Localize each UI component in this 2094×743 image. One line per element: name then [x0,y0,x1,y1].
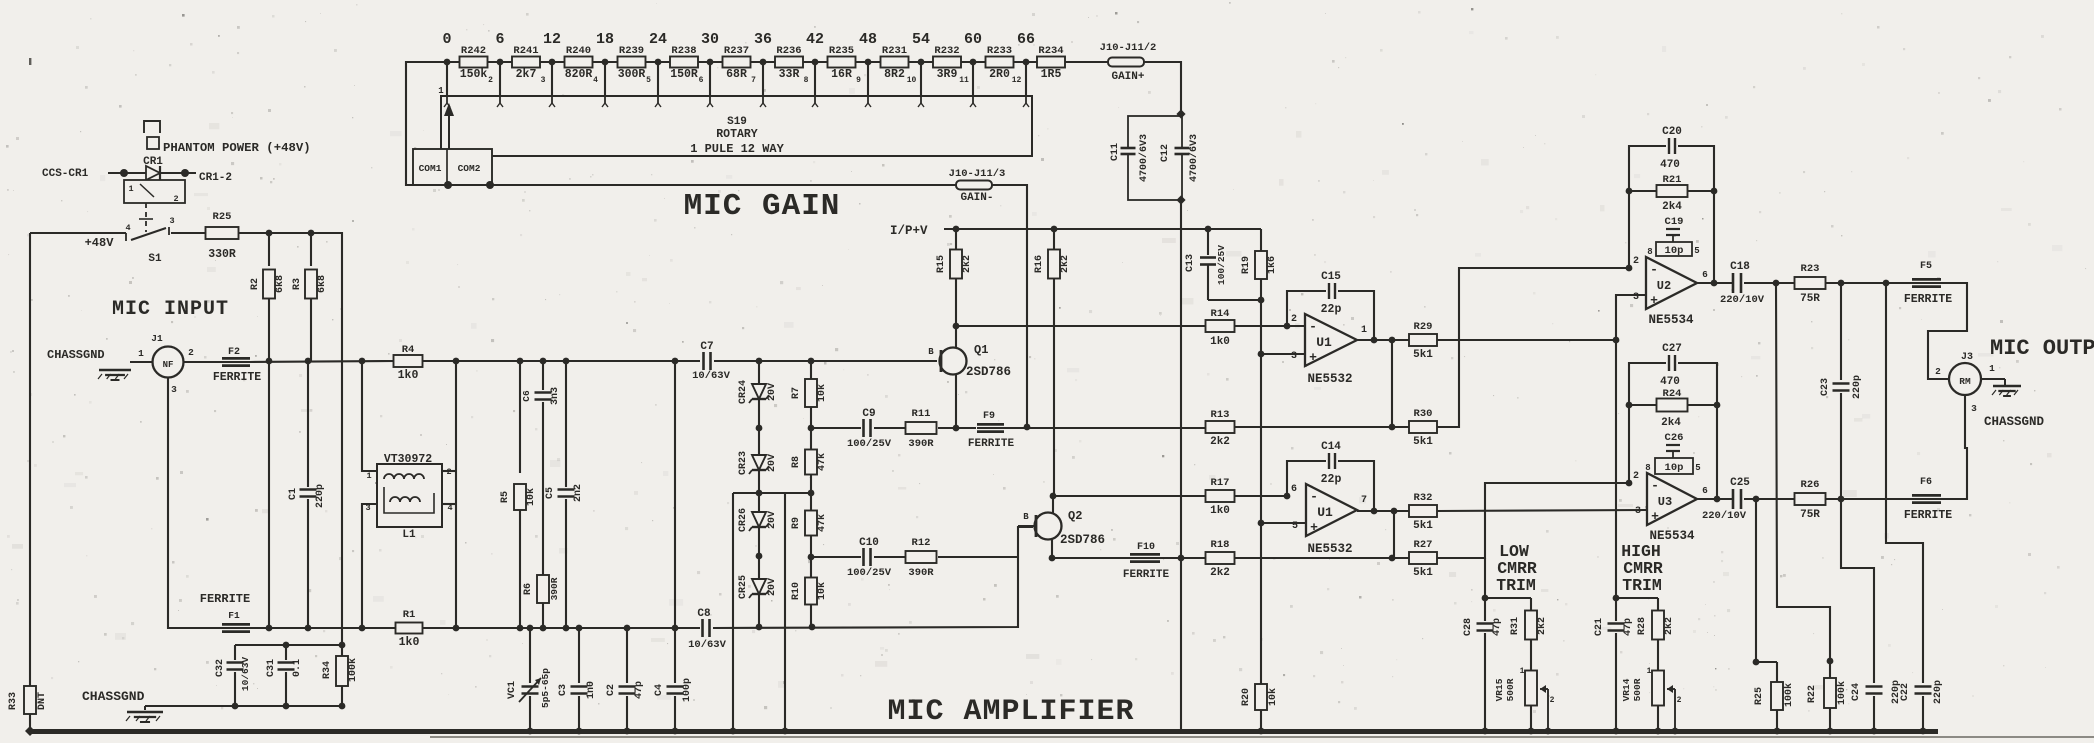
wire - R25 to R2 R3 [239,232,340,234]
svg-text:3: 3 [1971,403,1977,414]
svg-text:18: 18 [596,31,614,48]
svg-text:2R0: 2R0 [989,68,1010,81]
svg-text:C23: C23 [1820,378,1831,396]
node clamp rail 785 [782,728,789,735]
svg-text:10/63V: 10/63V [688,639,727,651]
wire - phantom down to C32 box [340,233,342,645]
svg-text:NE5532: NE5532 [1307,542,1352,556]
svg-text:FERRITE: FERRITE [1904,509,1952,522]
svg-text:R8: R8 [791,456,802,468]
svg-text:1: 1 [128,184,133,194]
svg-text:8: 8 [1645,463,1650,473]
wire - bias column [1260,300,1262,684]
symbol small square [147,137,159,149]
capacitor C6 3n3 [542,361,544,390]
svg-text:2: 2 [173,194,178,204]
svg-text:3: 3 [1633,292,1639,303]
svg-text:R6: R6 [523,583,534,595]
resistor R28 [1657,598,1659,611]
svg-text:R239: R239 [619,45,644,57]
resistor R32 [1409,505,1437,517]
node C13 top [1205,226,1212,233]
node C2 rail [624,728,631,735]
node R8-R9 [808,490,815,497]
op-amp U1A [1305,314,1357,366]
wire - R14 line [956,325,1205,327]
wire - tap 24 drop to switch S19 [657,62,659,96]
wire - VT pin2 column [455,361,457,628]
svg-text:16R: 16R [831,68,852,81]
capacitor C20 [1660,126,1682,171]
wire - Q1 collector [955,326,957,348]
svg-text:R33: R33 [8,692,19,710]
svg-text:6k8: 6k8 [316,275,328,293]
resistor R232 [933,57,961,68]
resistor R242 [460,57,488,68]
svg-text:220/10V: 220/10V [1720,294,1765,306]
svg-text:R25: R25 [1754,687,1765,705]
svg-text:R238: R238 [671,45,696,57]
svg-text:1k0: 1k0 [1210,336,1230,348]
node hot at VT pin2 column [453,358,460,365]
svg-text:C21: C21 [1594,618,1605,636]
diode CR1 [146,166,160,180]
wire - U2 output [1697,282,1732,284]
resistor R1 [396,623,423,634]
svg-text:R236: R236 [776,45,801,57]
wire - out2 drop [1756,499,1777,662]
svg-text:J10-J11/2: J10-J11/2 [1100,42,1157,54]
resistor R29 [1409,334,1437,346]
svg-text:390R: 390R [908,438,934,450]
wire - hot line C7 to Q1 base [714,360,937,362]
svg-text:60: 60 [964,31,982,48]
resistor R238 [670,57,698,68]
wire - C13 R19 bottom [1208,299,1261,301]
wire - clamp ground drop 785 [784,493,786,731]
node cold at VC1 [527,625,534,632]
svg-text:NE5534: NE5534 [1649,529,1695,543]
switch S19 contact 2 [499,96,501,103]
svg-text:VR14: VR14 [1621,678,1632,701]
node C18 R23 [1773,280,1780,287]
wire - Q1 emitter stub [955,374,957,428]
svg-text:R2: R2 [250,278,261,290]
wire - R chain column [810,361,812,627]
svg-text:R12: R12 [912,537,931,549]
capacitor C23 [1840,283,1842,380]
resistor R237 [723,57,751,68]
svg-text:J3: J3 [1961,352,1973,363]
node gain caps at Q2 emitter line [1178,555,1185,562]
svg-text:R234: R234 [1038,45,1063,57]
wire - decouple box top [235,644,342,646]
node cold at R2 column [268,627,270,629]
resistor R24 [1629,404,1657,406]
node R2 top [266,230,273,237]
trimpot VR14 [1652,671,1664,706]
svg-text:R18: R18 [1211,539,1230,551]
svg-text:ROTARY: ROTARY [716,128,758,141]
svg-text:24: 24 [649,31,667,48]
wire - R26 to F6 [1826,498,1912,500]
node R24 left [1626,402,1633,409]
svg-text:2: 2 [1677,696,1682,705]
wire - base2 line [811,556,861,558]
wire - decouple box bottom [145,705,342,707]
svg-text:150R: 150R [670,68,698,81]
node CR1 anode [120,169,128,177]
resistor R31 [1530,598,1532,611]
zener CR25 [752,579,766,594]
node out2 junction [1391,508,1398,515]
capacitor C22 [1920,686,1926,695]
wire - out2 down to R27 [1393,511,1395,558]
svg-text:3n3: 3n3 [550,387,561,405]
node Q1 collector [953,323,960,330]
svg-text:2k2: 2k2 [1210,436,1230,448]
svg-text:5: 5 [646,76,651,85]
capacitor C11 [1125,147,1131,155]
svg-text:5: 5 [1694,246,1699,256]
resistor R16 [1053,229,1055,249]
svg-text:2k2: 2k2 [961,255,973,273]
node R2 bottom [266,358,273,365]
resistor R20 [1255,684,1267,710]
wire - R28 to VR14 [1657,640,1659,671]
svg-text:C18: C18 [1730,261,1750,273]
node tap 30 [707,59,714,66]
capacitor C4 [674,628,676,683]
capacitor C5 [565,361,567,487]
node R21 left [1626,188,1633,195]
node R9-R10 [808,554,815,561]
switch S19 box [441,96,1032,156]
capacitor C14 [1321,441,1342,486]
resistor R26 [1795,493,1826,505]
svg-text:NE5534: NE5534 [1648,313,1694,327]
svg-text:COM1: COM1 [419,163,442,174]
node tap 36 [760,59,767,66]
svg-text:48: 48 [859,31,877,48]
svg-text:-: - [1310,489,1318,504]
node R34 bottom [339,703,346,710]
node tap 24 [655,59,662,66]
wire - R32 to U3 pin3 [1437,510,1647,511]
svg-text:+: + [1310,520,1318,535]
capacitor C27 loop [1629,363,1666,405]
svg-text:MIC OUTPUT: MIC OUTPUT [1990,336,2094,361]
ferrite F1 [222,623,250,633]
svg-text:10: 10 [907,76,917,85]
op-amp U2 [1646,257,1697,309]
svg-text:R237: R237 [724,45,749,57]
wire - clamp ground drop 733 [732,493,734,731]
svg-text:C3: C3 [558,684,569,696]
svg-text:R16: R16 [1034,255,1045,273]
wire - F6 to J3 pin3 [1941,396,1967,499]
trimpot VR15 wiper [1540,688,1548,690]
svg-text:47p: 47p [1492,618,1503,636]
svg-text:CHASSGND: CHASSGND [47,348,105,362]
wire - hot line F2 to R4 [250,361,395,362]
svg-text:36: 36 [754,31,772,48]
svg-text:R22: R22 [1807,685,1818,703]
svg-text:C10: C10 [859,537,879,549]
svg-text:33R: 33R [779,68,800,81]
resistor R235 [828,57,856,68]
svg-text:54: 54 [912,31,930,48]
wire - high trim feed [1615,340,1617,598]
node C15 at output [1371,337,1378,344]
wire - GAIN- down to Q1 emitter line [992,185,1027,427]
wire - U1B pin5 stub [1261,522,1306,524]
transformer winding 1-2 [384,474,424,479]
svg-text:F1: F1 [228,610,240,621]
svg-text:10k: 10k [1267,688,1279,706]
node R7-R8 [808,425,815,432]
switch S19 contact 3 [551,96,553,103]
svg-text:10/63V: 10/63V [692,370,731,382]
ferrite F9 [977,423,1004,433]
switch S1 blade [125,233,127,241]
svg-text:6: 6 [699,76,704,85]
capacitor C18 [1732,280,1742,286]
capacitor C10 [863,554,872,560]
svg-text:C8: C8 [697,608,711,620]
node out1 junction [1389,337,1396,344]
switch S19 contact 4 [604,96,606,103]
node R16 top [1051,226,1058,233]
wire - Q2 emitter stub [1051,539,1053,558]
capacitor C8 [702,625,711,631]
svg-text:R14: R14 [1211,308,1230,320]
svg-text:R231: R231 [882,45,907,57]
node tap 66 [1023,59,1030,66]
node out2 to R27 [1389,555,1396,562]
wire - out1 drop [1776,283,1830,661]
svg-text:C20: C20 [1662,126,1682,138]
svg-text:FERRITE: FERRITE [1904,293,1952,306]
wire - tap 30 drop to switch S19 [709,62,711,96]
svg-text:C28: C28 [1463,618,1474,636]
switch S19 contact 1 [446,96,448,103]
svg-text:R233: R233 [987,45,1012,57]
resistor R240 [565,57,593,68]
wire - tap 12 drop to switch S19 [551,62,553,96]
wire - R234 to J10-J11/2 [1065,61,1108,63]
svg-text:4: 4 [125,223,130,233]
svg-text:5k1: 5k1 [1413,567,1433,579]
switch S19 contact 5 [657,96,659,103]
svg-text:220p: 220p [315,484,326,508]
svg-text:6: 6 [1702,269,1708,280]
node tap 12 [549,59,556,66]
connector J10-J11/2 [1108,58,1144,67]
svg-text:47p: 47p [1623,618,1634,636]
resistor R10 [805,578,817,605]
ferrite F6 [1912,494,1941,504]
svg-text:7: 7 [751,76,756,85]
svg-text:1: 1 [138,348,144,359]
svg-text:TRIM: TRIM [1496,576,1536,595]
svg-text:R27: R27 [1414,539,1433,551]
svg-text:+48V: +48V [85,236,115,250]
svg-text:22p: 22p [1321,473,1342,486]
wire - tap 66 drop to switch S19 [1025,62,1027,96]
wire - high trim split [1616,597,1658,599]
svg-text:1n0: 1n0 [586,681,597,699]
svg-text:-: - [1309,319,1317,334]
node C14 at output [1371,508,1378,515]
node R3 bottom [305,358,312,365]
node VR15 rail [1528,728,1535,735]
svg-text:CR26: CR26 [738,508,749,532]
wire - F5 tap to C22 drop [1886,283,1923,683]
svg-text:2: 2 [1633,471,1639,482]
svg-text:CR23: CR23 [738,451,749,475]
svg-text:220p: 220p [1852,375,1863,399]
svg-text:R19: R19 [1241,256,1252,274]
node R22 top [1827,658,1834,665]
switch S19 contact 8 [814,96,816,103]
svg-text:NE5532: NE5532 [1307,372,1352,386]
svg-text:8: 8 [1647,247,1652,257]
svg-text:-: - [1651,478,1659,493]
wire - J1 pin3 down [168,378,222,628]
zener CR24 [752,384,766,399]
svg-text:42: 42 [806,31,824,48]
svg-text:500R: 500R [1505,678,1516,701]
svg-text:R10: R10 [791,582,802,600]
wire - diode chain column [758,361,760,627]
node C24 rail [1871,728,1878,735]
svg-text:820R: 820R [565,68,593,81]
svg-text:8R2: 8R2 [884,68,905,81]
wire - tap 60 drop to switch S19 [972,62,974,96]
svg-text:1: 1 [1520,667,1525,676]
svg-text:R3: R3 [292,278,303,290]
svg-text:MIC INPUT: MIC INPUT [112,298,229,321]
svg-text:68R: 68R [726,68,747,81]
wire - collector2 line [1053,495,1205,497]
node Q2 collector [1050,493,1057,500]
svg-text:1: 1 [1361,325,1367,336]
svg-text:C27: C27 [1662,343,1682,355]
svg-text:2n2: 2n2 [573,484,584,502]
node clamp rail 733 [730,728,737,735]
svg-text:C11: C11 [1110,143,1121,161]
svg-text:VC1: VC1 [507,681,518,699]
svg-text:CCS-CR1: CCS-CR1 [42,168,89,180]
svg-text:MIC GAIN: MIC GAIN [684,189,841,224]
svg-text:J1: J1 [151,333,163,344]
wire - R27 to U3 pin2 [1437,483,1628,558]
svg-text:C13: C13 [1185,254,1196,272]
wire - U3 output [1697,498,1732,500]
svg-text:390R: 390R [908,567,934,579]
svg-text:6: 6 [1291,484,1297,495]
wire - J1 pin1 stub [130,361,152,363]
wire - R29 to U2 pin3 [1437,339,1616,341]
svg-text:R24: R24 [1663,388,1682,400]
capacitor C24 [1871,686,1877,695]
wire - continuation to ground rail [1180,558,1182,731]
resistor R3 [310,233,312,266]
svg-text:3R9: 3R9 [937,68,958,81]
node R2 column cold [266,625,273,632]
svg-text:C14: C14 [1321,441,1341,453]
node VR15 wiper rail [1545,728,1552,735]
capacitor C1 [307,361,309,487]
svg-text:C22: C22 [1900,683,1911,701]
wire - U1A output [1357,339,1410,341]
node U1A pin2 [1284,323,1291,330]
node U2 pin2 [1626,265,1633,272]
node R34 top [339,642,346,649]
svg-text:F10: F10 [1137,542,1155,553]
svg-text:R28: R28 [1637,617,1648,635]
node tap 48 [865,59,872,66]
svg-text:C12: C12 [1160,144,1171,162]
node C32 bottom [232,703,239,710]
capacitor C20 loop [1629,146,1666,191]
node C21 rail [1613,728,1620,735]
transformer VT30972 box [377,464,442,527]
svg-text:+: + [1650,293,1658,308]
node hot at VT pin1 column [359,358,366,365]
node VC1 rail [527,728,534,735]
svg-text:10k: 10k [525,488,537,506]
node R15 top [953,226,960,233]
svg-text:4700/6V3: 4700/6V3 [1138,134,1150,182]
svg-text:2: 2 [1291,314,1297,325]
node cold at C5 [563,625,570,632]
zener CR23 [752,455,766,470]
wire - emitter1 line [811,427,861,429]
svg-text:1: 1 [1989,363,1995,374]
node out1 to R30 [1389,424,1396,431]
svg-text:30: 30 [701,31,719,48]
wire - left supply edge [29,233,31,686]
svg-text:C19: C19 [1665,216,1684,228]
wire - cold line F1 to R1 [250,627,396,629]
svg-text:75R: 75R [1800,509,1820,521]
wire - tap 54 drop to switch S19 [920,62,922,96]
resistor R6 [537,575,549,603]
node U2 out C20 [1711,280,1718,287]
wire - U1A pin3 stub [1261,353,1305,355]
svg-text:R241: R241 [513,45,538,57]
svg-text:5: 5 [1695,463,1700,473]
resistor R27 [1409,552,1437,564]
svg-text:2k2: 2k2 [1536,617,1548,635]
wire - C18 to R23 [1744,282,1795,284]
svg-text:2k4: 2k4 [1662,201,1682,213]
switch wiper arrow [448,112,450,149]
node VR14 rail [1655,728,1662,735]
svg-text:VR15: VR15 [1494,678,1505,701]
wire - R2 column to cold line [268,361,270,628]
node diode mid [756,490,763,497]
resistor R13 [1206,421,1235,433]
wire - R31 to VR15 [1530,640,1532,671]
node GAIN- at emitter line [1024,424,1031,431]
node cold at R5 [517,625,524,632]
node U3 pin2 [1626,480,1633,487]
switch S19 contact 6 [709,96,711,103]
svg-text:2k7: 2k7 [516,68,537,81]
